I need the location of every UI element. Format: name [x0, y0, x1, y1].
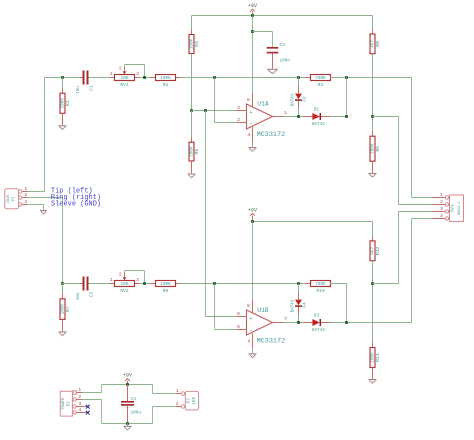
svg-text:R1: R1: [65, 100, 71, 106]
svg-text:2: 2: [78, 394, 81, 400]
svg-text:2: 2: [24, 192, 27, 198]
wire D3 to header pin 4: [330, 322, 412, 324]
svg-text:BAT43: BAT43: [312, 123, 325, 127]
resistor R4 100K: [191, 16, 193, 35]
svg-text:U1B: U1B: [257, 307, 269, 314]
svg-text:MC33172: MC33172: [257, 131, 286, 139]
diode D1 BAT43: [303, 116, 312, 118]
junction divider B right: [371, 282, 374, 285]
resistor R7 100K: [62, 284, 64, 299]
junction bias node A: [190, 109, 193, 112]
resistor R8 4K7: [372, 16, 374, 35]
resistor R2 100K: [151, 77, 156, 79]
svg-text:100K: 100K: [160, 76, 171, 81]
wire bus A middle: [89, 77, 311, 79]
junction D2 top: [297, 76, 300, 79]
junction C3 tap: [251, 30, 254, 33]
svg-text:2: 2: [119, 65, 122, 71]
ground U1A: [249, 147, 257, 149]
potentiometer RV2 10K: [110, 283, 115, 285]
svg-text:1: 1: [176, 388, 179, 394]
pin 4 U1A: [252, 127, 254, 143]
ground U1B: [249, 353, 257, 355]
wire to C3: [253, 31, 273, 33]
svg-text:R5: R5: [194, 149, 200, 155]
svg-text:1: 1: [110, 277, 113, 283]
connector J1 stereo jack: [5, 189, 19, 209]
wire power pin2 to ground rail: [82, 399, 102, 401]
wire shared bias riser to channel B: [205, 111, 207, 317]
svg-text:P3: P3: [187, 398, 191, 404]
connector SV1 pin header: [450, 195, 464, 222]
svg-text:R4: R4: [194, 41, 200, 47]
svg-text:R9: R9: [163, 288, 169, 294]
svg-text:4: 4: [440, 213, 443, 219]
svg-text:4: 4: [248, 132, 251, 138]
svg-text:3: 3: [440, 206, 443, 212]
svg-text:2: 2: [440, 199, 443, 205]
junction C4 bottom: [126, 422, 129, 425]
svg-text:750K: 750K: [315, 282, 326, 287]
pin 3 SV1: [432, 211, 445, 213]
junction bus B to pin6 tap: [213, 282, 216, 285]
wire power pin1 to +9V rail: [82, 392, 102, 394]
svg-text:10u: 10u: [77, 292, 81, 300]
wire R10 to feedback riser B: [330, 283, 347, 285]
junction output/D4: [297, 321, 300, 324]
wire +9V down to U1A pin 8: [252, 16, 254, 94]
wire output node B: [283, 322, 304, 324]
svg-text:2: 2: [176, 401, 179, 407]
wire output A to header pin 1: [411, 78, 413, 198]
wire jack ring riser: [62, 198, 64, 284]
junction rail A / +9V: [251, 14, 254, 17]
wire RV2 wiper loop: [124, 271, 126, 273]
ground R1: [59, 125, 67, 127]
junction D1 cathode node: [345, 115, 348, 118]
ground R7: [59, 331, 67, 333]
wire inverting input route B: [214, 284, 216, 330]
resistor R1 100K: [62, 78, 64, 94]
svg-text:1: 1: [440, 192, 443, 198]
svg-text:R11: R11: [375, 353, 381, 362]
ground R5: [188, 173, 196, 175]
pin 3 P2 unconnected: [73, 405, 76, 408]
op-amp U1B: [247, 310, 273, 335]
svg-text:8: 8: [247, 303, 250, 309]
svg-text:U1A: U1A: [257, 101, 269, 108]
pin 8 U1A: [252, 93, 254, 106]
capacitor C2 10u: [80, 283, 83, 285]
pin 1 J1: [18, 191, 20, 193]
svg-text:D1: D1: [314, 107, 320, 113]
ground R6: [369, 173, 377, 175]
svg-text:+: +: [249, 110, 252, 116]
ground R11: [369, 379, 377, 381]
svg-text:10u: 10u: [77, 86, 81, 94]
pin 8 U1B: [252, 299, 254, 312]
wire +9V rail A: [192, 15, 373, 17]
svg-text:5: 5: [237, 311, 240, 317]
connector P2 POWER: [60, 391, 72, 416]
svg-text:750K: 750K: [315, 76, 326, 81]
svg-text:C4: C4: [131, 396, 137, 402]
svg-text:R8: R8: [375, 41, 381, 47]
svg-text:R3: R3: [318, 82, 324, 88]
svg-text:RV2: RV2: [120, 288, 129, 294]
svg-text:R2: R2: [163, 82, 169, 88]
svg-text:MC33172: MC33172: [257, 338, 286, 346]
wire +9V rail B: [253, 221, 373, 223]
ground C3: [267, 68, 278, 70]
wire jack tip to bus A: [28, 191, 45, 193]
junction R7 top: [61, 282, 64, 285]
ground C4: [124, 425, 132, 427]
junction rail B: [251, 220, 254, 223]
capacitor C3 100n: [267, 47, 279, 49]
svg-text:3: 3: [237, 105, 240, 111]
svg-text:3: 3: [24, 199, 27, 205]
resistor R10 750K: [306, 283, 311, 285]
pin 4 U1B: [252, 333, 254, 349]
wire bus B middle: [89, 283, 311, 285]
svg-text:+9V: +9V: [123, 373, 132, 379]
wire bus A output segment: [330, 77, 412, 79]
resistor R6 100K: [372, 131, 374, 136]
pin 4 SV1: [432, 218, 445, 220]
svg-text:10K: 10K: [121, 282, 129, 287]
svg-text:Sleeve (GND): Sleeve (GND): [51, 201, 101, 209]
resistor R11 100K: [372, 343, 374, 348]
wire bus B left: [63, 283, 84, 285]
junction RV2 loop: [143, 282, 146, 285]
resistor R9 100K: [151, 283, 156, 285]
junction feedback tap B: [345, 321, 348, 324]
svg-text:−: −: [249, 328, 252, 334]
svg-text:2: 2: [237, 117, 240, 123]
wire jack sleeve to ground: [28, 204, 44, 206]
svg-text:1: 1: [110, 71, 113, 77]
wire +9V down to U1B pin 8: [252, 222, 254, 300]
svg-text:−: −: [249, 121, 252, 127]
junction D4 top: [297, 282, 300, 285]
svg-text:7: 7: [284, 316, 287, 322]
svg-text:R7: R7: [65, 306, 71, 312]
junction RV1 loop: [143, 76, 146, 79]
op-amp U1A: [247, 104, 273, 129]
wire D1 to feedback corner: [330, 116, 347, 118]
connector P3 LED: [185, 391, 198, 410]
svg-text:C1: C1: [89, 85, 95, 91]
pin 2 P2: [73, 398, 76, 401]
svg-text:4: 4: [248, 339, 251, 345]
svg-text:P1: P1: [13, 196, 17, 202]
junction R1 top: [61, 76, 64, 79]
svg-text:BAT43: BAT43: [312, 329, 325, 333]
svg-text:BAT43: BAT43: [291, 299, 295, 312]
wire jack ring to bus B: [28, 197, 63, 199]
svg-text:100K: 100K: [160, 282, 171, 287]
junction feedback tap A: [345, 76, 348, 79]
svg-text:D4: D4: [301, 302, 307, 308]
svg-text:3: 3: [136, 71, 139, 77]
svg-text:1: 1: [24, 186, 27, 192]
svg-text:8: 8: [247, 97, 250, 103]
wire bias node to pin 3: [192, 110, 237, 112]
junction shared bias tap: [204, 109, 207, 112]
svg-text:100u: 100u: [131, 411, 142, 416]
svg-text:3: 3: [136, 277, 139, 283]
svg-text:1: 1: [78, 387, 81, 393]
svg-text:MA04-1: MA04-1: [458, 201, 462, 215]
svg-text:LED: LED: [193, 396, 197, 404]
svg-text:10K: 10K: [121, 76, 129, 81]
wire to LED pin 1: [152, 385, 154, 394]
wire output node A: [283, 116, 304, 118]
capacitor C1 10u: [80, 77, 83, 79]
pin 3 J1: [18, 204, 20, 206]
resistor R3 750K: [306, 77, 311, 79]
svg-text:R12: R12: [375, 246, 381, 255]
pin 1 P2: [73, 391, 76, 394]
junction divider A right: [371, 115, 374, 118]
wire header pin 4 riser: [411, 219, 413, 323]
svg-text:+9V: +9V: [248, 3, 257, 9]
pin 1 SV1: [432, 197, 445, 199]
svg-text:POWER: POWER: [62, 397, 66, 409]
svg-text:+: +: [249, 316, 252, 322]
svg-text:2: 2: [119, 272, 122, 278]
svg-text:JACK: JACK: [7, 194, 11, 204]
potentiometer RV1 10K: [110, 77, 115, 79]
svg-text:R6: R6: [375, 146, 381, 152]
capacitor C4 100u: [127, 385, 129, 402]
pin 2 SV1: [432, 204, 445, 206]
svg-text:+9V: +9V: [248, 207, 257, 213]
svg-text:P2: P2: [67, 401, 71, 407]
ground jack sleeve: [40, 210, 47, 212]
pin 4 P2 unconnected: [73, 411, 76, 414]
svg-text:RV1: RV1: [120, 82, 129, 88]
wire to LED pin 2: [152, 407, 154, 424]
wire inverting input route: [214, 78, 216, 123]
junction C4 top: [126, 383, 129, 386]
svg-text:C3: C3: [280, 42, 286, 48]
wire bus A from input corner: [45, 77, 84, 79]
svg-text:4: 4: [78, 407, 81, 413]
svg-text:6: 6: [237, 324, 240, 330]
svg-text:3: 3: [78, 401, 81, 407]
junction bus to pin2 tap: [213, 76, 216, 79]
svg-text:D2: D2: [301, 96, 307, 102]
wire RV1 wiper loop: [124, 65, 126, 67]
diode D4 BAT43: [298, 284, 300, 293]
wire jack tip riser: [44, 78, 46, 192]
resistor R12 4K7: [372, 222, 374, 241]
pin 2 P3: [176, 406, 181, 408]
svg-text:D3: D3: [314, 313, 320, 319]
pin 2 J1: [18, 197, 20, 199]
wire feedback riser A: [346, 78, 348, 117]
wire divider node to header pin 2: [373, 116, 399, 118]
pin 1 P3: [176, 393, 181, 395]
wire divider node B to header pin 3: [373, 283, 399, 285]
svg-text:C2: C2: [89, 291, 95, 297]
svg-text:R10: R10: [316, 288, 325, 294]
resistor R5 100K: [191, 111, 193, 143]
svg-text:BAT43: BAT43: [291, 93, 295, 106]
wire shared bias to pin 5: [206, 316, 237, 318]
svg-text:1: 1: [284, 110, 287, 116]
diode D3 BAT43: [303, 322, 312, 324]
svg-text:100n: 100n: [280, 59, 291, 64]
diode D2 BAT43: [298, 78, 300, 87]
svg-text:SV1: SV1: [452, 204, 456, 212]
junction output/D2: [297, 115, 300, 118]
